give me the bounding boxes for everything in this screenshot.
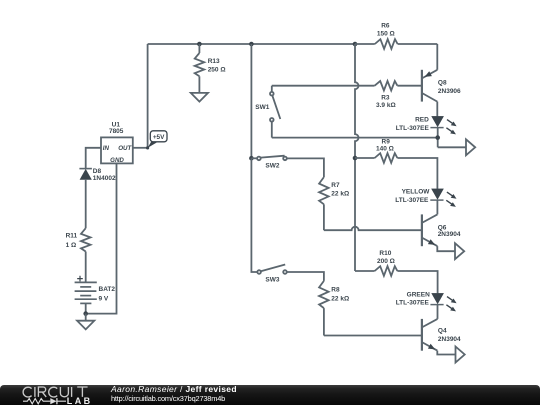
resistor R7 — [319, 177, 349, 230]
svg-text:2N3906: 2N3906 — [438, 88, 461, 95]
svg-text:2N3904: 2N3904 — [438, 231, 461, 238]
resistor R11 — [66, 228, 91, 282]
svg-text:R10: R10 — [379, 250, 391, 257]
wire RED LED cathode down — [437, 128, 439, 147]
svg-text:R13: R13 — [208, 58, 220, 65]
wire R6 to Q8 emitter — [436, 44, 438, 70]
vertical +5V feeder rail with wire hops — [355, 44, 359, 271]
wire Q8 collector to RED LED — [436, 102, 438, 117]
svg-text:+5V: +5V — [153, 134, 165, 141]
svg-text:3.9 kΩ: 3.9 kΩ — [376, 102, 396, 109]
wire U1 IN to D8 — [86, 148, 101, 169]
node junction dot at switch-column tap — [249, 42, 254, 47]
svg-text:RED: RED — [415, 117, 429, 124]
resistor R10 — [375, 250, 398, 276]
wire R10 from rail corner — [355, 270, 375, 272]
wire top +5V rail horizontal — [148, 43, 355, 45]
wire YELLOW cathode to Q6 collector — [436, 200, 438, 214]
svg-text:SW1: SW1 — [255, 104, 269, 111]
wire switch column vertical — [250, 44, 252, 158]
diode D8 1N4002 — [79, 168, 116, 182]
resistor R13 — [195, 44, 226, 93]
node junction dot at SW2 — [249, 156, 254, 161]
svg-text:9 V: 9 V — [99, 295, 109, 302]
ground battery — [77, 321, 94, 330]
wire SW1 top to R3 — [272, 85, 375, 87]
transistor Q4 2N3904 — [422, 319, 461, 351]
node junction dot RED output net — [435, 135, 440, 140]
svg-text:200 Ω: 200 Ω — [377, 258, 395, 265]
wire switch column to SW3 — [251, 158, 257, 272]
switch SW2 — [251, 156, 286, 170]
svg-text:SW3: SW3 — [265, 277, 279, 284]
node +5V net flag — [146, 131, 167, 150]
svg-text:R9: R9 — [382, 138, 391, 145]
output flag YELLOW — [455, 243, 464, 259]
svg-text:2N3904: 2N3904 — [438, 336, 461, 343]
wire Q6 emitter to YELLOW output flag — [437, 246, 455, 251]
svg-text:LTL-307EE: LTL-307EE — [396, 300, 430, 307]
svg-text:1N4002: 1N4002 — [93, 175, 116, 182]
LED GREEN LTL-307EE — [396, 291, 457, 311]
svg-text:SW2: SW2 — [265, 163, 279, 170]
svg-text:LTL-307EE: LTL-307EE — [396, 125, 430, 132]
wire R7 to Q6 base with hop over rail — [324, 227, 421, 231]
svg-text:IN: IN — [103, 145, 110, 152]
ground below R13 — [191, 93, 208, 102]
svg-text:7805: 7805 — [109, 128, 124, 135]
output flag GREEN — [456, 347, 465, 363]
svg-text:Q8: Q8 — [438, 80, 447, 87]
svg-text:22 kΩ: 22 kΩ — [331, 190, 349, 197]
wire D8 to R11 — [85, 180, 87, 228]
svg-text:140 Ω: 140 Ω — [376, 145, 394, 152]
svg-text:Q4: Q4 — [438, 328, 447, 335]
wire U1 OUT to +5V node — [133, 147, 148, 149]
svg-text:R11: R11 — [66, 232, 78, 239]
wire +5V riser from regulator OUT — [147, 44, 149, 148]
wire SW2 to R7 — [287, 158, 324, 177]
switch SW1 — [255, 86, 280, 138]
svg-text:D8: D8 — [93, 168, 102, 175]
CircuitLab logo — [0, 385, 110, 406]
output flag RED — [466, 139, 475, 155]
svg-text:R3: R3 — [381, 95, 390, 102]
wire R9 from rail — [355, 157, 375, 159]
LED YELLOW LTL-307EE — [395, 188, 456, 207]
svg-text:BAT2: BAT2 — [99, 286, 116, 293]
svg-text:OUT: OUT — [118, 145, 132, 152]
LED RED LTL-307EE — [396, 116, 457, 134]
svg-text:150 Ω: 150 Ω — [377, 31, 395, 38]
svg-text:GND: GND — [110, 157, 124, 164]
transistor Q8 2N3906 — [422, 70, 461, 102]
wire to RED output flag — [438, 146, 466, 148]
switch SW3 — [257, 265, 287, 284]
svg-text:R6: R6 — [381, 22, 390, 29]
wire SW1 bottom to RED cathode junction — [272, 137, 438, 139]
resistor R6 — [355, 22, 437, 49]
node junction dot at R13 tap — [197, 42, 202, 47]
resistor R3 — [375, 81, 421, 109]
resistor R9 — [375, 138, 398, 162]
node junction dot at right rail tap — [353, 42, 358, 47]
wire R10 to GREEN LED anode — [397, 271, 437, 293]
svg-text:GREEN: GREEN — [407, 291, 430, 298]
wire SW3 to R8 — [287, 272, 324, 281]
wire battery minus to U1 GND riser — [86, 163, 117, 313]
svg-text:250 Ω: 250 Ω — [208, 66, 226, 73]
node junction dot rail to R9 — [353, 156, 358, 161]
node junction dot battery minus — [83, 311, 88, 316]
svg-text:1 Ω: 1 Ω — [66, 242, 77, 249]
wire GREEN cathode to Q4 collector — [437, 305, 439, 319]
battery BAT2 9V — [75, 276, 116, 314]
svg-text:22 kΩ: 22 kΩ — [331, 296, 349, 303]
svg-text:LAB: LAB — [67, 396, 93, 406]
svg-text:R7: R7 — [331, 182, 340, 189]
IC U1 7805 voltage regulator — [101, 121, 133, 164]
transistor Q6 2N3904 — [422, 214, 461, 246]
svg-text:YELLOW: YELLOW — [402, 188, 431, 195]
wire Q4 emitter to GREEN output flag — [437, 351, 455, 355]
wire stub to ground — [85, 314, 87, 321]
svg-text:LTL-307EE: LTL-307EE — [395, 197, 429, 204]
resistor R8 — [319, 281, 349, 336]
wire R8 to Q4 base — [324, 335, 421, 337]
wire R9 to YELLOW LED anode — [397, 158, 437, 189]
svg-text:R8: R8 — [331, 287, 340, 294]
